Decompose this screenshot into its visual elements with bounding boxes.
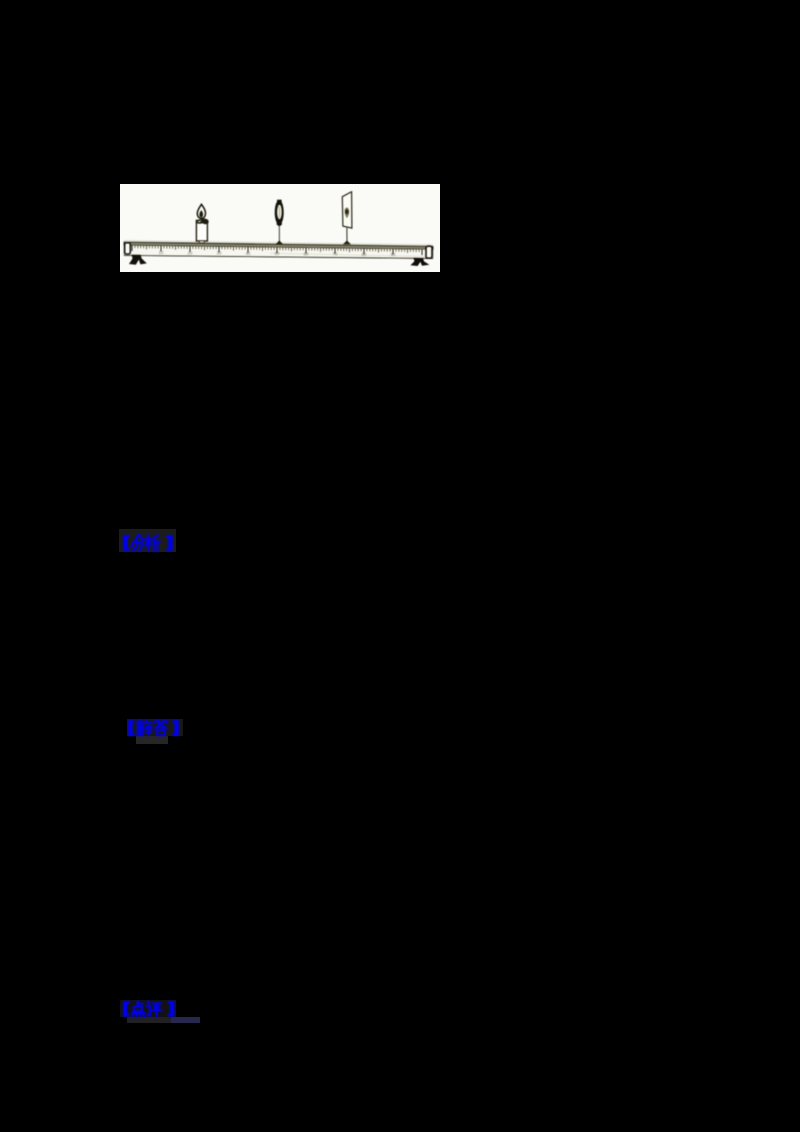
candle holder base xyxy=(199,241,204,243)
svg-text:80: 80 xyxy=(362,252,367,257)
candle flame xyxy=(197,204,205,218)
svg-text:30: 30 xyxy=(217,251,222,256)
photo of optical bench experiment xyxy=(120,184,440,272)
highlight box behind label 分析 xyxy=(119,529,176,552)
optical bench track top face xyxy=(124,242,433,249)
svg-text:40: 40 xyxy=(246,251,251,256)
candle flame inner wick xyxy=(199,210,203,217)
track left end cap xyxy=(125,243,131,254)
image of flame on screen xyxy=(344,208,349,219)
screen stem xyxy=(346,228,348,242)
faint text remnant under 解答 xyxy=(136,736,168,743)
svg-text:50: 50 xyxy=(275,251,280,256)
wire ruler tick marks xyxy=(132,245,422,255)
svg-text:60: 60 xyxy=(304,251,309,256)
right foot xyxy=(410,258,429,266)
lens stem xyxy=(278,225,280,242)
svg-text:70: 70 xyxy=(333,252,338,257)
svg-text:10: 10 xyxy=(159,250,164,255)
soft photo shadow above track xyxy=(124,241,433,245)
candle body xyxy=(196,220,207,241)
label 【点评】 xyxy=(121,1000,179,1020)
left foot xyxy=(129,255,147,265)
screen base xyxy=(343,240,351,244)
screen card xyxy=(342,192,352,228)
svg-text:20: 20 xyxy=(188,250,193,255)
label 【解答】 xyxy=(126,719,184,739)
svg-text:90: 90 xyxy=(391,252,396,257)
label 【分析】 xyxy=(121,534,179,554)
candle melted wax top xyxy=(196,219,209,225)
ruler numbers 10-90 xyxy=(159,250,396,257)
highlight box behind label 解答 xyxy=(127,719,184,737)
track bottom edge line xyxy=(124,255,433,258)
optical bench track front face xyxy=(124,245,433,258)
track right end cap xyxy=(426,246,432,258)
lens base xyxy=(276,240,283,244)
highlight box behind label 点评 xyxy=(120,1000,176,1017)
lens body xyxy=(275,200,284,225)
navy highlight segment xyxy=(171,1017,200,1023)
faint text remnant under 点评 xyxy=(127,1017,172,1024)
